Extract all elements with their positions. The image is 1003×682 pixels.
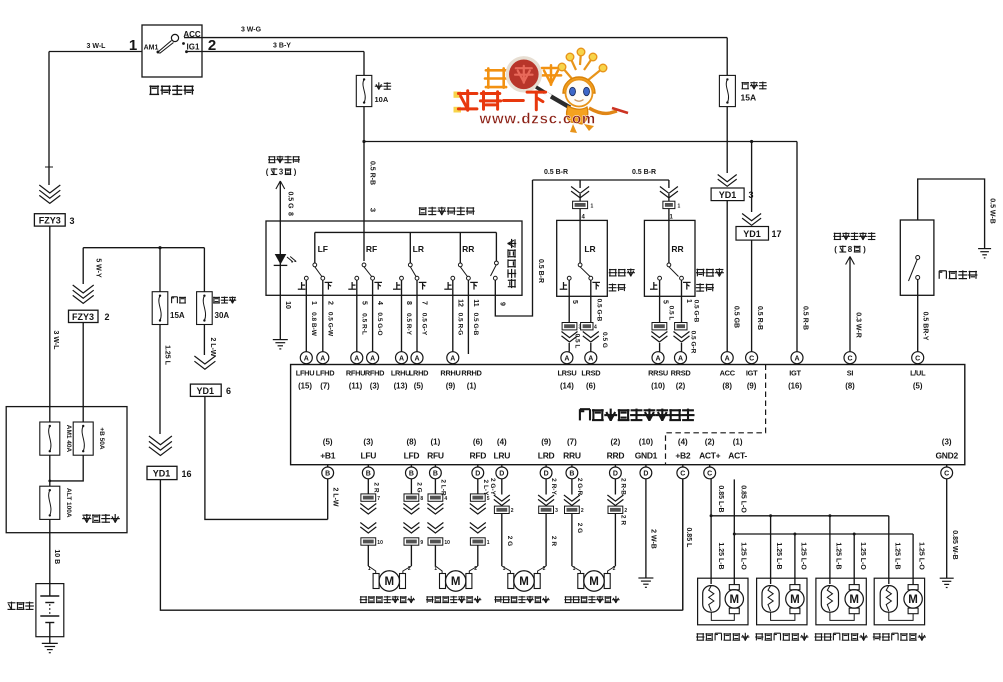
svg-text:(1): (1) bbox=[467, 382, 477, 391]
svg-text:0.5 G-B: 0.5 G-B bbox=[596, 299, 603, 322]
svg-text:): ) bbox=[294, 168, 297, 177]
svg-text:LRSU: LRSU bbox=[557, 369, 576, 378]
svg-text:C: C bbox=[944, 471, 949, 478]
svg-text:4: 4 bbox=[376, 301, 383, 305]
svg-text:(4): (4) bbox=[497, 438, 507, 447]
svg-text:9: 9 bbox=[499, 302, 506, 306]
svg-text:(13): (13) bbox=[394, 382, 408, 391]
svg-text:(6): (6) bbox=[586, 382, 596, 391]
svg-text:1: 1 bbox=[434, 566, 437, 572]
svg-text:(5): (5) bbox=[414, 382, 424, 391]
svg-text:www.dzsc.com: www.dzsc.com bbox=[479, 111, 597, 128]
svg-text:5 W-Y: 5 W-Y bbox=[95, 258, 102, 278]
svg-text:A: A bbox=[450, 355, 455, 362]
svg-text:GND2: GND2 bbox=[935, 451, 958, 461]
svg-text:3: 3 bbox=[555, 508, 558, 514]
svg-text:(16): (16) bbox=[788, 382, 802, 391]
svg-text:17: 17 bbox=[772, 229, 782, 239]
svg-text:(: ( bbox=[834, 245, 837, 254]
svg-text:8: 8 bbox=[420, 496, 423, 502]
svg-text:(1): (1) bbox=[431, 438, 441, 447]
svg-text:1.25 L-O: 1.25 L-O bbox=[859, 542, 866, 570]
svg-text:0.5 G-O: 0.5 G-O bbox=[376, 312, 383, 335]
svg-text:11: 11 bbox=[472, 299, 479, 307]
svg-text:3 W-L: 3 W-L bbox=[52, 331, 59, 351]
svg-text:4: 4 bbox=[444, 496, 447, 502]
svg-text:1: 1 bbox=[685, 299, 692, 303]
svg-text:2: 2 bbox=[581, 508, 584, 514]
svg-text:1.25 L-B: 1.25 L-B bbox=[717, 542, 724, 569]
svg-text:(15): (15) bbox=[298, 382, 312, 391]
svg-text:M: M bbox=[790, 594, 800, 606]
svg-text:0.5 G: 0.5 G bbox=[601, 332, 608, 348]
svg-text:0.85 L-B: 0.85 L-B bbox=[717, 485, 724, 512]
svg-text:ACC: ACC bbox=[720, 369, 736, 378]
svg-text:(8): (8) bbox=[845, 382, 855, 391]
svg-text:RF: RF bbox=[366, 244, 377, 254]
svg-text:1.25 L-O: 1.25 L-O bbox=[800, 542, 807, 570]
svg-text:(3): (3) bbox=[370, 382, 380, 391]
svg-text:(6): (6) bbox=[473, 438, 483, 447]
svg-text:2 G: 2 G bbox=[576, 523, 583, 533]
svg-text:1: 1 bbox=[573, 566, 576, 572]
svg-text:(1): (1) bbox=[733, 438, 743, 447]
svg-text:A: A bbox=[564, 355, 569, 362]
svg-text:3: 3 bbox=[369, 208, 378, 212]
svg-text:A: A bbox=[414, 355, 419, 362]
svg-text:C: C bbox=[915, 355, 920, 362]
svg-text:7: 7 bbox=[377, 496, 380, 502]
svg-text:2 R-Y: 2 R-Y bbox=[550, 478, 557, 495]
svg-text:8: 8 bbox=[405, 301, 412, 305]
svg-text:1: 1 bbox=[368, 566, 371, 572]
svg-text:IGT: IGT bbox=[789, 369, 801, 378]
svg-text:M: M bbox=[730, 594, 740, 606]
svg-text:3: 3 bbox=[70, 216, 75, 226]
svg-text:AM1 40A: AM1 40A bbox=[65, 425, 72, 453]
svg-text:2 W-B: 2 W-B bbox=[650, 529, 657, 549]
svg-text:(2): (2) bbox=[611, 438, 621, 447]
svg-text:1: 1 bbox=[670, 215, 674, 221]
svg-text:2: 2 bbox=[105, 312, 110, 322]
svg-text:LRU: LRU bbox=[494, 451, 511, 461]
svg-text:0.5 R-B: 0.5 R-B bbox=[802, 306, 809, 330]
svg-text:1: 1 bbox=[487, 540, 490, 546]
svg-text:LRD: LRD bbox=[538, 451, 555, 461]
svg-text:RFHD: RFHD bbox=[365, 369, 385, 378]
svg-text:GND1: GND1 bbox=[635, 451, 658, 461]
svg-text:2 R-B: 2 R-B bbox=[619, 478, 626, 495]
svg-text:IG1: IG1 bbox=[187, 43, 200, 52]
svg-text:(9): (9) bbox=[541, 438, 551, 447]
svg-text:2: 2 bbox=[474, 566, 477, 572]
svg-text:+B 50A: +B 50A bbox=[98, 427, 105, 450]
svg-text:FZY3: FZY3 bbox=[72, 312, 94, 322]
svg-text:0.5 R-G: 0.5 R-G bbox=[456, 313, 463, 336]
svg-text:ACT+: ACT+ bbox=[699, 451, 721, 461]
svg-text:LFU: LFU bbox=[360, 451, 376, 461]
svg-text:YD1: YD1 bbox=[197, 386, 215, 396]
svg-text:(5): (5) bbox=[323, 438, 333, 447]
svg-text:B: B bbox=[325, 471, 330, 478]
svg-text:0.5 G-Y: 0.5 G-Y bbox=[421, 313, 428, 336]
svg-text:YD1: YD1 bbox=[153, 469, 171, 479]
svg-text:(2): (2) bbox=[676, 382, 686, 391]
svg-text:0.5 G-B: 0.5 G-B bbox=[693, 300, 700, 323]
svg-text:LFHD: LFHD bbox=[316, 369, 335, 378]
svg-text:2: 2 bbox=[326, 301, 333, 305]
svg-text:2: 2 bbox=[511, 508, 514, 514]
svg-text:3 W-G: 3 W-G bbox=[241, 27, 262, 34]
svg-text:RR: RR bbox=[671, 244, 683, 254]
svg-text:3: 3 bbox=[279, 168, 284, 177]
svg-text:0.5 GB: 0.5 GB bbox=[733, 306, 740, 328]
svg-text:LFD: LFD bbox=[404, 451, 420, 461]
svg-text:0.5 B-R: 0.5 B-R bbox=[632, 169, 656, 176]
svg-text:0.5 R-Y: 0.5 R-Y bbox=[405, 313, 412, 336]
svg-text:B: B bbox=[366, 471, 371, 478]
svg-text:0.5 R-L: 0.5 R-L bbox=[360, 313, 367, 335]
svg-text:0.5 BR-Y: 0.5 BR-Y bbox=[922, 312, 929, 341]
svg-text:2 R: 2 R bbox=[372, 482, 379, 492]
svg-text:A: A bbox=[354, 355, 359, 362]
svg-text:(5): (5) bbox=[913, 382, 923, 391]
svg-text:M: M bbox=[385, 576, 395, 588]
svg-text:10 B: 10 B bbox=[53, 549, 60, 564]
svg-text:RRD: RRD bbox=[607, 451, 625, 461]
svg-text:1: 1 bbox=[129, 37, 137, 54]
svg-text:D: D bbox=[499, 471, 504, 478]
svg-text:(7): (7) bbox=[567, 438, 577, 447]
svg-text:(8): (8) bbox=[722, 382, 732, 391]
svg-text:0.5 G-B: 0.5 G-B bbox=[472, 313, 479, 336]
svg-text:A: A bbox=[370, 355, 375, 362]
svg-text:LRHU: LRHU bbox=[391, 369, 410, 378]
svg-text:0.8 B-W: 0.8 B-W bbox=[310, 312, 317, 337]
svg-text:B: B bbox=[409, 471, 414, 478]
svg-text:RFHU: RFHU bbox=[346, 369, 365, 378]
svg-text:1: 1 bbox=[503, 566, 506, 572]
svg-text:(: ( bbox=[266, 168, 269, 177]
svg-text:0.85 W-B: 0.85 W-B bbox=[951, 530, 958, 559]
svg-text:5: 5 bbox=[487, 496, 490, 502]
svg-text:YD1: YD1 bbox=[719, 190, 737, 200]
svg-text:D: D bbox=[613, 471, 618, 478]
svg-text:2: 2 bbox=[408, 566, 411, 572]
svg-text:2 L-W: 2 L-W bbox=[332, 487, 339, 506]
svg-text:5: 5 bbox=[360, 301, 367, 305]
svg-text:+B1: +B1 bbox=[320, 451, 336, 461]
svg-text:5: 5 bbox=[571, 300, 578, 304]
svg-text:2 G-R: 2 G-R bbox=[576, 478, 583, 496]
svg-text:(3): (3) bbox=[363, 438, 373, 447]
svg-text:A: A bbox=[794, 355, 799, 362]
svg-text:2: 2 bbox=[543, 566, 546, 572]
svg-text:(14): (14) bbox=[560, 382, 574, 391]
svg-text:0.5 B-R: 0.5 B-R bbox=[537, 259, 544, 283]
svg-text:A: A bbox=[588, 355, 593, 362]
svg-text:30A: 30A bbox=[215, 311, 230, 320]
svg-text:YD1: YD1 bbox=[743, 229, 761, 239]
svg-text:(10): (10) bbox=[651, 382, 665, 391]
svg-text:(10): (10) bbox=[639, 438, 654, 447]
svg-text:2 R: 2 R bbox=[550, 536, 557, 546]
svg-text:2 G: 2 G bbox=[415, 482, 422, 492]
svg-text:A: A bbox=[399, 355, 404, 362]
svg-text:5: 5 bbox=[662, 300, 669, 304]
svg-text:M: M bbox=[849, 594, 859, 606]
svg-text:IGT: IGT bbox=[746, 369, 758, 378]
svg-text:15A: 15A bbox=[170, 311, 185, 320]
svg-text:A: A bbox=[725, 355, 730, 362]
svg-text:A: A bbox=[678, 355, 683, 362]
svg-text:RRSD: RRSD bbox=[671, 369, 692, 378]
svg-text:C: C bbox=[707, 471, 712, 478]
svg-text:B: B bbox=[433, 471, 438, 478]
svg-text:2: 2 bbox=[624, 508, 627, 514]
svg-text:RRSU: RRSU bbox=[648, 369, 668, 378]
svg-text:10: 10 bbox=[284, 301, 291, 309]
svg-text:A: A bbox=[320, 355, 325, 362]
svg-text:A: A bbox=[304, 355, 309, 362]
svg-text:+B2: +B2 bbox=[675, 451, 691, 461]
svg-text:A: A bbox=[655, 355, 660, 362]
svg-text:0.5 B-R: 0.5 B-R bbox=[544, 169, 568, 176]
svg-text:10A: 10A bbox=[375, 95, 389, 104]
svg-text:1.25 L: 1.25 L bbox=[164, 345, 171, 366]
svg-text:0.85 L: 0.85 L bbox=[685, 527, 692, 548]
svg-text:(9): (9) bbox=[747, 382, 757, 391]
svg-text:D: D bbox=[643, 471, 648, 478]
svg-text:0.5 W-B: 0.5 W-B bbox=[989, 198, 996, 224]
svg-text:9: 9 bbox=[420, 540, 423, 546]
svg-text:1.25 L-O: 1.25 L-O bbox=[740, 542, 747, 570]
svg-text:(8): (8) bbox=[407, 438, 417, 447]
svg-text:3 B-Y: 3 B-Y bbox=[273, 43, 291, 50]
svg-text:1.25 L-B: 1.25 L-B bbox=[775, 542, 782, 569]
svg-text:1: 1 bbox=[310, 301, 317, 305]
svg-text:4: 4 bbox=[582, 215, 586, 221]
svg-text:0.85 L-O: 0.85 L-O bbox=[740, 485, 747, 513]
svg-text:2 L-W: 2 L-W bbox=[209, 337, 216, 356]
svg-text:M: M bbox=[589, 576, 599, 588]
svg-text:2: 2 bbox=[613, 566, 616, 572]
svg-text:RR: RR bbox=[462, 244, 474, 254]
svg-text:2 G-Y: 2 G-Y bbox=[489, 478, 496, 496]
svg-text:C: C bbox=[847, 355, 852, 362]
svg-text:LRHD: LRHD bbox=[409, 369, 429, 378]
svg-text:L/UL: L/UL bbox=[910, 369, 926, 378]
svg-text:RRHD: RRHD bbox=[461, 369, 482, 378]
svg-text:(9): (9) bbox=[446, 382, 456, 391]
svg-text:1: 1 bbox=[678, 204, 681, 210]
svg-text:SI: SI bbox=[847, 369, 854, 378]
svg-text:ACT-: ACT- bbox=[728, 451, 747, 461]
svg-text:2 G: 2 G bbox=[506, 536, 513, 546]
svg-text:15A: 15A bbox=[741, 93, 757, 103]
svg-text:0.3 W-R: 0.3 W-R bbox=[855, 312, 862, 338]
svg-text:0.5 G-R: 0.5 G-R bbox=[690, 331, 697, 354]
svg-text:LR: LR bbox=[413, 244, 424, 254]
svg-text:D: D bbox=[475, 471, 480, 478]
svg-text:M: M bbox=[519, 576, 529, 588]
svg-text:C: C bbox=[749, 355, 754, 362]
svg-text:): ) bbox=[863, 245, 866, 254]
svg-text:10: 10 bbox=[377, 540, 383, 546]
svg-text:1.25 L-B: 1.25 L-B bbox=[893, 542, 900, 569]
svg-text:RRHU: RRHU bbox=[440, 369, 460, 378]
svg-text:6: 6 bbox=[226, 386, 231, 396]
svg-text:3 W-L: 3 W-L bbox=[87, 43, 107, 50]
svg-text:(4): (4) bbox=[678, 438, 688, 447]
svg-text:0.5 G-W: 0.5 G-W bbox=[326, 312, 333, 337]
svg-text:M: M bbox=[908, 594, 918, 606]
svg-text:LR: LR bbox=[584, 244, 595, 254]
svg-text:(11): (11) bbox=[349, 382, 363, 391]
svg-text:RRU: RRU bbox=[563, 451, 581, 461]
svg-text:0.5 L: 0.5 L bbox=[668, 306, 675, 321]
svg-text:8: 8 bbox=[287, 212, 294, 216]
svg-text:2 R: 2 R bbox=[619, 515, 626, 525]
svg-text:0.5 G: 0.5 G bbox=[287, 191, 294, 209]
svg-text:0.5 R-B: 0.5 R-B bbox=[756, 306, 763, 330]
svg-text:1.25 L-B: 1.25 L-B bbox=[835, 542, 842, 569]
svg-text:FZY3: FZY3 bbox=[39, 216, 61, 226]
svg-text:12: 12 bbox=[456, 299, 463, 307]
svg-text:C: C bbox=[680, 471, 685, 478]
svg-text:1.25 L-O: 1.25 L-O bbox=[918, 542, 925, 570]
svg-text:(2): (2) bbox=[705, 438, 715, 447]
svg-text:M: M bbox=[451, 576, 461, 588]
svg-text:8: 8 bbox=[848, 245, 853, 254]
svg-text:ALT 100A: ALT 100A bbox=[65, 488, 72, 518]
svg-text:RFU: RFU bbox=[427, 451, 444, 461]
svg-text:D: D bbox=[544, 471, 549, 478]
svg-text:LF: LF bbox=[318, 244, 328, 254]
svg-text:1: 1 bbox=[591, 204, 594, 210]
svg-text:16: 16 bbox=[182, 469, 192, 479]
svg-text:0.5 R-B: 0.5 R-B bbox=[369, 161, 376, 185]
svg-text:10: 10 bbox=[444, 540, 450, 546]
svg-text:LFHU: LFHU bbox=[296, 369, 315, 378]
svg-text:(7): (7) bbox=[320, 382, 330, 391]
svg-text:B: B bbox=[569, 471, 574, 478]
svg-text:(3): (3) bbox=[942, 438, 952, 447]
svg-text:7: 7 bbox=[421, 301, 428, 305]
svg-text:0.5 L: 0.5 L bbox=[574, 334, 581, 349]
svg-text:RFD: RFD bbox=[470, 451, 487, 461]
svg-text:LRSD: LRSD bbox=[581, 369, 601, 378]
svg-text:AM1: AM1 bbox=[144, 45, 159, 52]
svg-text:4: 4 bbox=[594, 325, 597, 331]
